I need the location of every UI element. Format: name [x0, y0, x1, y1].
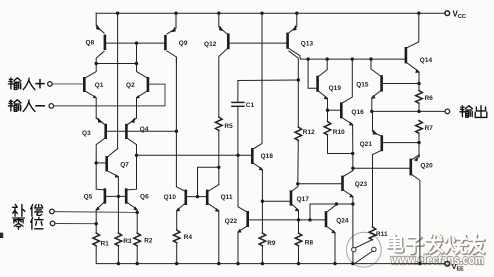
- svg-text:Q19: Q19: [329, 85, 342, 92]
- node dot R10 to Q16E column: [351, 152, 354, 155]
- node Vcc terminal: [445, 9, 466, 20]
- transistor Q8: [86, 13, 107, 63]
- transistor Q18: [251, 13, 273, 233]
- transistor Q14: [405, 13, 433, 90]
- wire Q23E to V- rail: [352, 204, 354, 264]
- svg-text:Q7: Q7: [120, 161, 129, 168]
- terminal 输出: [445, 106, 487, 118]
- svg-text:C1: C1: [246, 102, 255, 109]
- svg-text:Q11: Q11: [221, 194, 233, 201]
- transistor Q7: [96, 149, 129, 197]
- node small circle 2: [372, 247, 376, 251]
- transistor Q19: [308, 59, 341, 121]
- svg-text:Q5: Q5: [84, 194, 93, 201]
- node dot C1 bottom / Q22 collector: [236, 154, 239, 157]
- transistor Q2: [126, 64, 149, 119]
- svg-text:R9: R9: [267, 240, 276, 247]
- wire circle2 diagonal to rail: [356, 251, 372, 262]
- transistor Q24: [310, 204, 353, 264]
- wire base tap down to R3: [117, 196, 119, 233]
- svg-text:Q16: Q16: [351, 109, 364, 116]
- node dot Q4C branch: [135, 154, 138, 157]
- watermark text 电子发烧友 www.elecfans.com: [388, 235, 484, 254]
- svg-text:VCC: VCC: [453, 9, 466, 20]
- node dot rail Q23E: [351, 262, 354, 265]
- resistor R12: [295, 127, 315, 184]
- node dot Q17 collector / R12 bottom: [296, 182, 299, 185]
- svg-text:R11: R11: [376, 231, 388, 238]
- node dot Q15 base / R6 top: [417, 82, 420, 85]
- svg-text:Q18: Q18: [261, 153, 274, 160]
- node dot rail R9: [261, 262, 264, 265]
- wire Q3-Q4 base line to Q9C/Q10C column: [107, 130, 176, 132]
- svg-text:Q14: Q14: [420, 57, 433, 64]
- wire Q10-Q11 base line: [187, 196, 206, 198]
- svg-text:Q21: Q21: [360, 141, 373, 148]
- transistor Q10: [164, 187, 188, 230]
- svg-text:R5: R5: [224, 123, 233, 130]
- node dot rail Q20C: [418, 262, 421, 265]
- node dot rail Q12: [217, 12, 220, 15]
- node dot rail Q13: [295, 12, 298, 15]
- node -VEE terminal: [445, 262, 464, 273]
- watermark logo circle: [346, 232, 381, 267]
- svg-text:Q13: Q13: [301, 41, 314, 48]
- svg-text:www.elecfans.com: www.elecfans.com: [390, 252, 484, 267]
- svg-text:Q9: Q9: [179, 40, 188, 47]
- resistor R2: [134, 233, 153, 264]
- node dot rail R8: [297, 262, 300, 265]
- svg-text:R6: R6: [425, 95, 434, 102]
- node dot Q24 collector on loop: [335, 202, 338, 205]
- node dot Q21 base / R7 bottom: [417, 141, 420, 144]
- wire Q11 collector-base loop: [198, 167, 219, 196]
- node dot Q23 emitter/Q24 loop: [351, 202, 354, 205]
- svg-text:Q22: Q22: [225, 218, 238, 225]
- node dot Q19E/Q16B/R10: [326, 109, 329, 112]
- node dot rail Q18C: [260, 12, 263, 15]
- transistor Q5: [84, 188, 107, 233]
- svg-text:R8: R8: [305, 240, 314, 247]
- node dot base tap: [196, 195, 199, 198]
- node dot rail Q24E: [333, 262, 336, 265]
- wire Q8C to Q1C/Q2C link: [96, 63, 136, 65]
- node dot Q19 collector tap: [326, 57, 329, 60]
- transistor Q3: [82, 117, 107, 189]
- transistor Q20: [410, 155, 434, 264]
- resistor R10: [324, 122, 353, 154]
- terminal 输入+: [8, 78, 83, 90]
- terminal 零位: [13, 218, 97, 230]
- wire Q12-Q13 base line: [230, 42, 287, 44]
- node dot left: [95, 62, 98, 65]
- wire Q8-Q9 base line: [106, 42, 164, 44]
- svg-text:R12: R12: [303, 129, 315, 136]
- transistor Q22: [225, 155, 325, 263]
- node dot base line x R8 column: [297, 218, 300, 221]
- node dot rail R3: [117, 262, 120, 265]
- node dot loop to column: [217, 166, 220, 169]
- scan artifact left edge: [0, 233, 3, 238]
- transistor Q1: [83, 64, 104, 119]
- node dot 补偿 to Q6 emitter: [136, 211, 139, 214]
- svg-text:Q3: Q3: [82, 130, 91, 137]
- node dot Q23C / Q16E / Q20 base: [351, 167, 354, 170]
- node small circle 1: [352, 247, 356, 251]
- wire R11 diagonal to circle 1: [356, 240, 372, 248]
- node dot right: [135, 62, 138, 65]
- transistor Q16: [328, 59, 365, 168]
- svg-text:R3: R3: [123, 238, 132, 245]
- node dot rail x117.6: [116, 12, 119, 15]
- resistor R5: [216, 117, 234, 185]
- wire Q18 base line: [137, 154, 252, 156]
- transistor Q6: [125, 188, 149, 233]
- wire node A line Q13C to Q14 base: [300, 58, 404, 60]
- svg-text:Q20: Q20: [420, 162, 433, 169]
- node dot 零位 to Q5 emitter: [95, 222, 98, 225]
- resistor R8: [295, 233, 313, 264]
- node dot rail x176: [174, 12, 177, 15]
- svg-text:Q6: Q6: [140, 193, 149, 200]
- transistor Q15: [356, 59, 419, 111]
- transistor Q23: [298, 168, 368, 204]
- node dot Q8/Q9 base tap: [135, 41, 138, 44]
- wire output node line: [372, 110, 445, 112]
- node dot Q7 base: [95, 161, 98, 164]
- wire Q5-Q6 base line: [106, 195, 125, 197]
- svg-text:Q10: Q10: [164, 194, 177, 201]
- resistor R4: [173, 230, 192, 264]
- svg-text:R2: R2: [144, 238, 153, 245]
- node dot base line right end: [175, 130, 178, 133]
- node dot Q17 base: [261, 200, 264, 203]
- transistor Q21: [360, 111, 419, 227]
- node dot rail R4: [175, 262, 178, 265]
- resistor R3: [115, 233, 132, 264]
- wire V- bottom rail: [96, 263, 444, 265]
- wire V+ top rail: [96, 12, 444, 14]
- node dot base line Q24 tap: [308, 218, 311, 221]
- node dot C1 top tap: [297, 78, 300, 81]
- transistor Q17: [262, 184, 309, 233]
- resistor R9: [259, 233, 276, 264]
- node dot Q16 collector tap: [351, 57, 354, 60]
- svg-text:Q4: Q4: [140, 126, 149, 133]
- svg-text:R10: R10: [333, 129, 345, 136]
- svg-text:R4: R4: [184, 234, 193, 241]
- node dot Q19 base tap: [306, 57, 309, 60]
- node dot Q15 collector tap: [369, 57, 372, 60]
- resistor R11: [369, 227, 388, 240]
- svg-text:Q8: Q8: [86, 40, 95, 47]
- capacitor C1: [232, 80, 298, 155]
- wire Q20 base line: [353, 167, 410, 169]
- svg-text:Q15: Q15: [356, 81, 369, 88]
- transistor Q11: [206, 185, 233, 264]
- terminal 补偿: [13, 204, 138, 216]
- wire base-to-collector tap: [136, 43, 138, 63]
- node dot rail Q11: [217, 262, 220, 265]
- transistor Q9: [164, 13, 188, 63]
- transistor Q13: [286, 13, 313, 127]
- node dot rail R2: [136, 262, 139, 265]
- wire Q9/Q10 collector column: [175, 57, 177, 187]
- terminal 输入-: [8, 84, 165, 111]
- svg-text:R7: R7: [425, 125, 434, 132]
- svg-text:Q17: Q17: [297, 196, 310, 203]
- resistor R7: [416, 121, 434, 158]
- svg-text:Q23: Q23: [355, 181, 368, 188]
- node dot rail Q14C: [417, 12, 420, 15]
- node dot output Q15E/Q21E: [370, 110, 373, 113]
- svg-text:Q12: Q12: [204, 41, 217, 48]
- node dot Q5/Q6 base tap: [117, 195, 120, 198]
- node dot rail Q22E: [236, 262, 239, 265]
- wire Q7 collector column to V+: [117, 13, 119, 148]
- svg-text:Q24: Q24: [336, 218, 349, 225]
- transistor Q4: [125, 117, 149, 189]
- svg-text:Q2: Q2: [126, 82, 135, 89]
- svg-text:R1: R1: [101, 241, 110, 248]
- node dot output R6/R7: [417, 110, 420, 113]
- transistor Q12: [204, 13, 230, 117]
- resistor R6: [416, 91, 434, 112]
- resistor R1: [93, 233, 109, 264]
- svg-text:Q1: Q1: [95, 82, 104, 89]
